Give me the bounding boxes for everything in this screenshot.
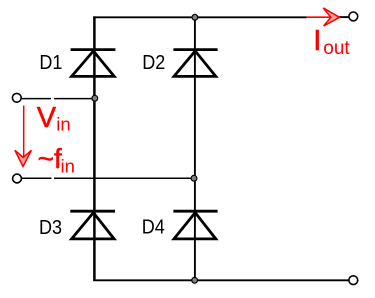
- svg-text:in: in: [56, 114, 70, 135]
- wire: bottom output bus (node -): [93, 279, 349, 281]
- svg-text:D1: D1: [39, 52, 62, 74]
- diode D2: [173, 50, 217, 77]
- svg-text:in: in: [61, 156, 75, 177]
- terminal: AC input lower-left: [13, 174, 22, 183]
- arrow: I_out current direction (shaft): [306, 16, 333, 18]
- terminal: DC output lower-right: [349, 276, 358, 285]
- terminal: AC input upper-left: [12, 93, 21, 102]
- diode D1: [71, 50, 116, 77]
- wire: short segment from arrow tip to output terminal: [339, 16, 349, 18]
- wire: right bridge column (D2/D4 branch): [194, 17, 196, 281]
- diode D3: [70, 211, 115, 239]
- junction: node B (right column / lower AC lead): [191, 175, 197, 181]
- svg-text:out: out: [323, 38, 350, 59]
- diode D4: [173, 211, 217, 239]
- arrow: V_in polarity (shaft): [23, 106, 25, 159]
- junction: top bus / right column: [192, 14, 198, 20]
- svg-text:D4: D4: [142, 217, 165, 239]
- junction: node A (left column / upper AC lead): [92, 95, 98, 101]
- arrow: I_out current direction (head): [323, 8, 339, 26]
- arrow: V_in polarity (head): [15, 150, 32, 166]
- svg-text:V: V: [37, 102, 57, 134]
- wire: top output bus (node +): [93, 16, 307, 18]
- wire: lower AC input lead (terminal to node B, crosses left column, small break): [22, 177, 52, 179]
- svg-text:D2: D2: [142, 52, 165, 74]
- wire: left bridge column (D1/D3 branch): [93, 16, 96, 280]
- terminal: DC output upper-right: [349, 12, 358, 21]
- svg-text:D3: D3: [39, 217, 62, 239]
- junction: bottom bus / right column: [192, 277, 198, 283]
- svg-text:I: I: [313, 25, 321, 57]
- svg-text:~f: ~f: [38, 143, 62, 174]
- wire: upper AC input lead (terminal to node A, with small break): [21, 98, 51, 100]
